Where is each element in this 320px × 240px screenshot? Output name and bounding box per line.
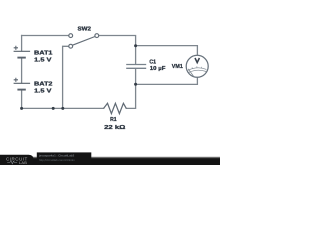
svg-text:1.5 V: 1.5 V [34,57,51,63]
svg-text:VM1: VM1 [172,64,184,70]
svg-text:BAT1: BAT1 [34,51,53,57]
svg-text:1.5 V: 1.5 V [34,88,51,94]
svg-text:10 µF: 10 µF [150,66,166,72]
svg-text:jesusparks1 : CircuitLab2: jesusparks1 : CircuitLab2 [38,154,75,158]
svg-text:C1: C1 [149,60,156,66]
svg-text:SW2: SW2 [78,27,92,33]
svg-text:BAT2: BAT2 [34,82,53,88]
svg-text:LAB: LAB [19,160,27,165]
svg-text:22 kΩ: 22 kΩ [104,125,126,131]
svg-text:http;//circuitlab.com/c/trknkx: http;//circuitlab.com/c/trknkx [39,158,75,162]
svg-text:R1: R1 [110,117,117,123]
